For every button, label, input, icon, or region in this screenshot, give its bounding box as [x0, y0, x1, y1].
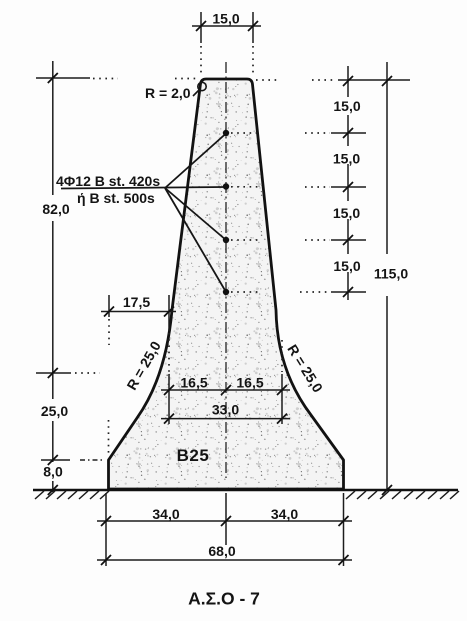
svg-text:8,0: 8,0	[43, 464, 63, 480]
svg-text:115,0: 115,0	[374, 266, 408, 282]
svg-text:34,0: 34,0	[271, 506, 298, 522]
svg-text:15,0: 15,0	[333, 205, 360, 221]
svg-text:33,0: 33,0	[212, 402, 239, 418]
svg-text:82,0: 82,0	[42, 201, 69, 217]
svg-text:15,0: 15,0	[212, 11, 239, 27]
svg-text:16,5: 16,5	[236, 375, 263, 391]
svg-text:34,0: 34,0	[152, 506, 179, 522]
svg-text:25,0: 25,0	[41, 403, 68, 419]
svg-text:15,0: 15,0	[333, 151, 360, 167]
svg-text:Α.Σ.Ο - 7: Α.Σ.Ο - 7	[188, 589, 260, 609]
svg-text:B25: B25	[177, 446, 210, 465]
svg-text:17,5: 17,5	[123, 294, 150, 310]
svg-text:ή B st. 500s: ή B st. 500s	[77, 190, 155, 206]
svg-text:16,5: 16,5	[180, 375, 207, 391]
svg-text:4Φ12 B st. 420s: 4Φ12 B st. 420s	[56, 173, 160, 189]
svg-text:R = 2,0: R = 2,0	[145, 85, 191, 101]
svg-text:68,0: 68,0	[208, 543, 235, 559]
svg-text:15,0: 15,0	[333, 98, 360, 114]
svg-text:15,0: 15,0	[333, 258, 360, 274]
